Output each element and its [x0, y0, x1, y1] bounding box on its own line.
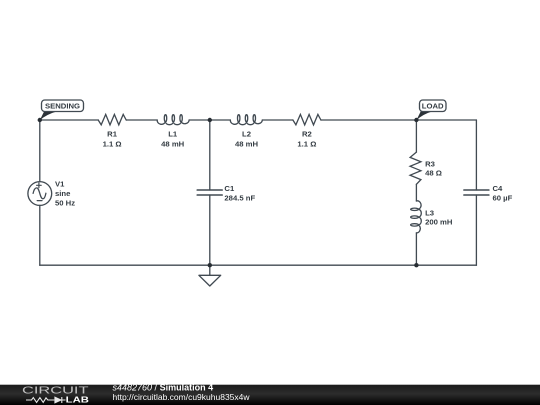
ground symbol: [199, 275, 221, 286]
inductor L2: [230, 115, 262, 125]
svg-text:SENDING: SENDING: [45, 101, 80, 110]
V1 sine wave: [33, 188, 46, 199]
wire LOAD node to top-right corner: [416, 119, 476, 121]
logo resistor-diode glyph: [26, 397, 66, 403]
wire L1 to L2 through node B: [189, 119, 230, 121]
svg-text:LAB: LAB: [66, 396, 89, 405]
V1 minus sign: [37, 200, 42, 202]
svg-text:L3: L3: [425, 208, 434, 217]
footer bar: [0, 385, 540, 405]
wire C4 bottom lead: [475, 195, 477, 265]
svg-text:L1: L1: [168, 129, 178, 138]
logo CIRCUIT wordmark: [22, 386, 90, 397]
node dot C1 top junction: [208, 118, 212, 122]
label C1 value: [224, 184, 255, 203]
svg-text:R1: R1: [107, 129, 118, 138]
resistor R1: [98, 114, 126, 125]
wire L2 to R2: [262, 119, 293, 121]
label L1 value: [161, 129, 185, 148]
inductor L1: [157, 115, 189, 125]
wire ground stub: [209, 265, 211, 275]
inductor L3: [411, 201, 422, 233]
svg-text:sine: sine: [55, 189, 71, 198]
node dot SENDING: [38, 118, 42, 122]
footer title text: [113, 382, 251, 401]
svg-text:1.1 Ω: 1.1 Ω: [297, 139, 316, 148]
resistor R2: [293, 114, 321, 125]
svg-text:1.1 Ω: 1.1 Ω: [103, 139, 122, 148]
wire C1 top lead: [209, 120, 211, 190]
logo LAB wordmark: [66, 396, 89, 405]
label L3 value: [425, 208, 453, 226]
svg-text:48 Ω: 48 Ω: [425, 169, 442, 178]
wire L3 to bottom: [415, 233, 417, 265]
node dot L3 bottom junction: [414, 263, 418, 267]
label R1 value: [103, 129, 122, 148]
svg-text:48 mH: 48 mH: [235, 139, 259, 148]
node dot ground junction: [208, 263, 212, 267]
wire right branch upper (C4 top lead): [475, 120, 477, 190]
label V1 value: [55, 180, 75, 208]
svg-text:60 µF: 60 µF: [493, 193, 513, 202]
svg-text:LOAD: LOAD: [422, 101, 444, 110]
net flag LOAD: [416, 100, 446, 120]
svg-text:R2: R2: [302, 129, 312, 138]
svg-text:48 mH: 48 mH: [161, 139, 185, 148]
wire R2 to LOAD node: [321, 119, 417, 121]
wire R1 to L1: [126, 119, 157, 121]
wire top-left vertical (V1 top lead): [39, 120, 41, 182]
wire R3 to L3: [415, 184, 417, 201]
label L2 value: [235, 129, 259, 148]
capacitor C1: [197, 190, 222, 195]
svg-text:http://circuitlab.com/cu9kuhu8: http://circuitlab.com/cu9kuhu835x4w: [113, 392, 251, 402]
svg-text:50 Hz: 50 Hz: [55, 198, 75, 207]
label R3 value: [425, 159, 442, 177]
svg-text:R3: R3: [425, 159, 435, 168]
svg-text:200 mH: 200 mH: [425, 218, 453, 227]
svg-text:C4: C4: [493, 184, 504, 193]
wire V1 bottom lead: [39, 205, 41, 265]
resistor R3: [410, 152, 421, 184]
capacitor C4: [464, 190, 489, 195]
svg-text:284.5 nF: 284.5 nF: [224, 193, 255, 202]
wire bottom rail: [40, 264, 477, 266]
label C4 value: [493, 184, 513, 203]
wire top segment node A to R1: [40, 119, 98, 121]
svg-text:V1: V1: [55, 180, 65, 189]
svg-text:L2: L2: [242, 129, 251, 138]
wire C1 bottom lead: [209, 195, 211, 265]
V1 plus sign: [37, 183, 42, 188]
node dot LOAD: [414, 118, 418, 122]
label R2 value: [297, 129, 316, 148]
svg-text:C1: C1: [224, 184, 235, 193]
wire LOAD branch to R3: [415, 120, 417, 152]
net flag SENDING: [40, 100, 84, 120]
voltage source V1 circle: [28, 182, 52, 206]
